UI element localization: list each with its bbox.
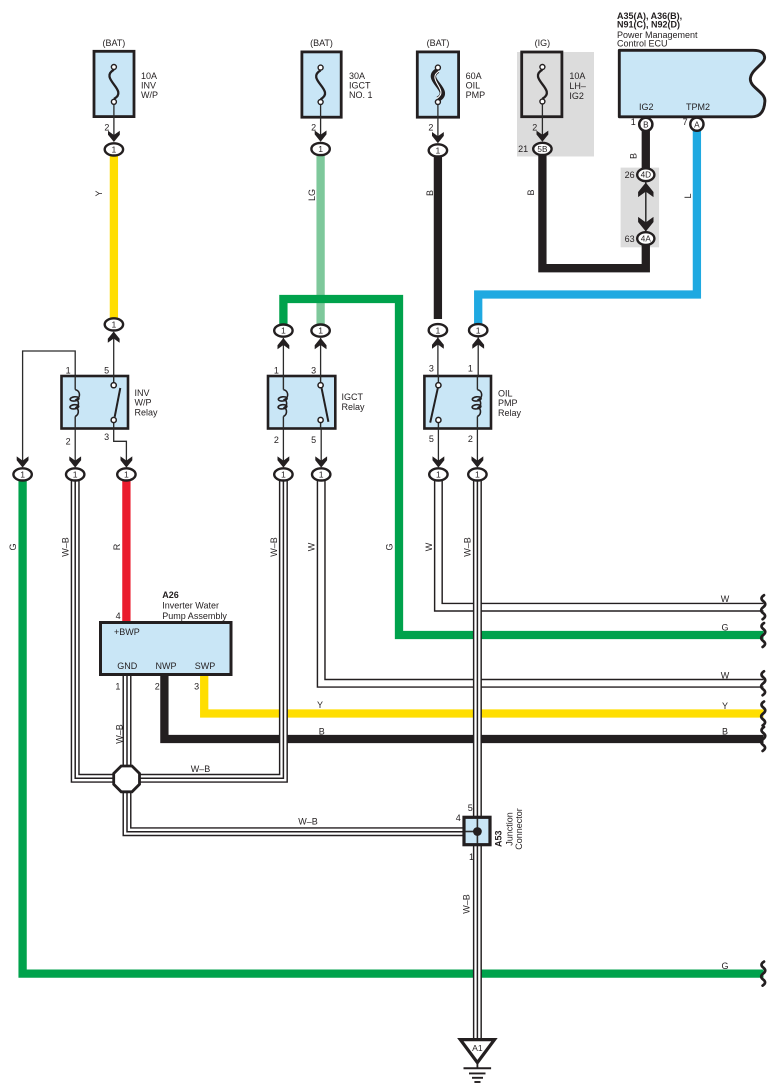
connector oval 1 left column <box>13 468 31 480</box>
connector oval 1 below IGCT pin5 <box>312 468 330 480</box>
fuse 10A LH-IG2 <box>522 52 562 117</box>
wire Y A26 SWP to right edge <box>204 673 763 714</box>
connector oval 1 below fuse1 <box>105 143 123 155</box>
svg-text:Y: Y <box>722 701 728 711</box>
ECU pin circle B (IG2) <box>639 118 652 131</box>
svg-text:W–B: W–B <box>191 764 211 774</box>
svg-text:3: 3 <box>194 682 199 692</box>
wire W OIL PMP relay pin 5 to right edge <box>438 478 763 607</box>
svg-text:1: 1 <box>274 366 279 376</box>
svg-text:W–B: W–B <box>269 537 279 557</box>
svg-text:G: G <box>721 622 728 632</box>
svg-text:1: 1 <box>436 145 441 155</box>
connector oval 1 above IGCT pin3 <box>311 325 329 337</box>
svg-text:10A: 10A <box>569 71 585 81</box>
svg-text:W: W <box>721 594 730 604</box>
svg-text:G: G <box>385 543 395 550</box>
svg-text:W: W <box>307 542 317 551</box>
arrow into OIL pin5 connector <box>433 456 445 467</box>
svg-text:W–B: W–B <box>298 817 318 827</box>
svg-text:7: 7 <box>683 117 688 127</box>
wire LG fuse IGCT to relay pin 3 <box>316 156 324 326</box>
svg-text:R: R <box>112 543 122 550</box>
svg-text:5: 5 <box>311 435 316 445</box>
gray panel around IG fuse <box>517 52 594 157</box>
connector oval 1 below IGCT pin2 <box>274 468 292 480</box>
arrow into INV pin2 connector <box>69 456 81 467</box>
wire G left net to bottom right edge <box>23 478 764 974</box>
arrow up into IGCT pin3 connector <box>315 338 327 349</box>
svg-text:INV: INV <box>135 388 150 398</box>
svg-text:IG2: IG2 <box>569 91 584 101</box>
svg-text:1: 1 <box>436 325 441 335</box>
svg-text:1: 1 <box>112 319 117 329</box>
svg-text:B: B <box>425 190 435 196</box>
relay IGCT coil <box>282 376 284 390</box>
arrow into INV pin3 connector <box>121 456 133 467</box>
svg-text:4: 4 <box>116 611 121 621</box>
svg-text:3: 3 <box>104 432 109 442</box>
arrow up into IGCT pin1 connector <box>278 338 290 349</box>
connector oval 1 below OIL pin2 <box>468 468 486 480</box>
connector oval 1 above OIL pin3 <box>429 324 447 336</box>
wire B 5B connector to 4A connector <box>542 154 645 268</box>
svg-text:GND: GND <box>117 661 138 671</box>
ECU box Power Management Control ECU <box>619 50 765 117</box>
arrow into 5B connector <box>537 131 549 142</box>
svg-text:A: A <box>694 120 700 129</box>
svg-text:63: 63 <box>625 234 635 244</box>
arrow into fuse3 connector <box>432 132 444 143</box>
svg-text:B: B <box>526 189 536 195</box>
svg-text:OIL: OIL <box>466 81 481 91</box>
wire B A26 NWP to right edge <box>164 673 763 739</box>
break squiggle G bottom <box>761 962 765 986</box>
svg-text:1: 1 <box>476 325 481 335</box>
connector oval 1 below INV pin3 <box>117 468 135 480</box>
wire L ECU pin TPM2 to OIL PMP relay pin 1 <box>478 130 697 325</box>
svg-text:B: B <box>319 726 325 736</box>
relay INV W/P box <box>62 376 129 429</box>
svg-text:1: 1 <box>281 469 286 479</box>
wire W-B INV relay pin 2 to octagon junction <box>75 478 113 778</box>
svg-text:5: 5 <box>468 803 473 813</box>
connector oval 4A <box>637 232 654 245</box>
svg-text:Relay: Relay <box>135 407 159 417</box>
svg-text:Inverter Water: Inverter Water <box>162 600 219 610</box>
svg-text:4: 4 <box>456 813 461 823</box>
svg-text:3: 3 <box>311 366 316 376</box>
wire B fuse OIL PMP to relay pin 3 <box>434 157 442 320</box>
svg-text:1: 1 <box>631 117 636 127</box>
svg-text:W–B: W–B <box>463 537 473 557</box>
svg-text:4A: 4A <box>641 235 652 244</box>
svg-text:1: 1 <box>124 469 129 479</box>
svg-text:N91(C), N92(D): N91(C), N92(D) <box>617 20 680 30</box>
svg-text:1: 1 <box>318 326 323 336</box>
wire Y fuse INV W/P to relay <box>110 156 118 319</box>
svg-text:2: 2 <box>532 122 537 132</box>
svg-text:G: G <box>721 961 728 971</box>
relay IGCT box <box>268 376 335 429</box>
connector oval 1 above OIL pin1 <box>469 324 487 336</box>
svg-text:1: 1 <box>281 326 286 336</box>
svg-text:30A: 30A <box>349 71 365 81</box>
svg-text:4D: 4D <box>641 171 652 180</box>
svg-text:IG2: IG2 <box>639 102 654 112</box>
relay IGCT switch <box>320 376 322 385</box>
svg-text:(BAT): (BAT) <box>427 38 450 48</box>
wire W-B octagon junction to A53 pin 4 <box>127 788 466 832</box>
A26 Inverter Water Pump Assembly box <box>101 623 232 675</box>
connector oval 1 above INV pin5 <box>105 318 123 330</box>
svg-text:1: 1 <box>319 469 324 479</box>
svg-text:2: 2 <box>104 123 109 133</box>
svg-text:(BAT): (BAT) <box>102 38 125 48</box>
arrow into fuse1 connector <box>108 131 120 142</box>
svg-text:(BAT): (BAT) <box>310 38 333 48</box>
svg-text:1: 1 <box>469 852 474 862</box>
svg-text:IGCT: IGCT <box>342 392 364 402</box>
break squiggle G IGCT net <box>761 623 765 647</box>
svg-text:Junction: Junction <box>504 812 514 846</box>
wire thin INV relay pin 1 to left connector <box>23 351 76 466</box>
svg-text:1: 1 <box>112 144 117 154</box>
wire R INV relay pin 3 to A26 +BWP <box>122 478 130 624</box>
svg-text:L: L <box>683 193 693 198</box>
svg-text:LH–: LH– <box>569 81 586 91</box>
svg-text:B: B <box>629 153 639 159</box>
break squiggle B NWP <box>761 727 765 751</box>
connector oval 4D <box>637 168 654 181</box>
svg-text:1: 1 <box>436 469 441 479</box>
svg-text:Control ECU: Control ECU <box>617 38 668 48</box>
svg-text:21: 21 <box>518 144 528 154</box>
arrow down 4A <box>638 217 653 232</box>
svg-text:5B: 5B <box>537 145 548 154</box>
wire G IGCT relay pin 1 net to right edge <box>283 299 763 635</box>
pin stub OIL relay pin 5 <box>437 429 439 467</box>
svg-text:10A: 10A <box>141 71 157 81</box>
svg-text:W/P: W/P <box>141 90 158 100</box>
svg-text:2: 2 <box>274 435 279 445</box>
svg-text:2: 2 <box>155 682 160 692</box>
relay INV W/P switch <box>113 376 115 385</box>
wire W-B OIL PMP relay pin 2 through A53 to ground A1 <box>473 478 482 1039</box>
link line 4D to 4A <box>645 178 647 236</box>
svg-text:PMP: PMP <box>466 90 486 100</box>
svg-text:2: 2 <box>428 122 433 132</box>
svg-text:W: W <box>424 542 434 551</box>
arrow into left connector <box>17 456 29 467</box>
relay OIL PMP switch <box>437 376 439 385</box>
svg-text:5: 5 <box>429 434 434 444</box>
svg-text:Relay: Relay <box>498 408 522 418</box>
connector oval 1 below fuse2 <box>311 143 329 155</box>
svg-text:A53: A53 <box>494 830 504 847</box>
svg-text:1: 1 <box>73 469 78 479</box>
pin stub IGCT relay pin 3 <box>320 338 322 376</box>
svg-text:W–B: W–B <box>462 894 472 914</box>
svg-text:1: 1 <box>318 144 323 154</box>
svg-text:1: 1 <box>115 682 120 692</box>
relay OIL PMP coil <box>476 376 478 390</box>
svg-text:2: 2 <box>468 434 473 444</box>
pin stub OIL relay pin 1 <box>477 338 479 377</box>
svg-text:B: B <box>643 121 649 130</box>
svg-text:INV: INV <box>141 81 156 91</box>
A53 junction connector box <box>464 817 490 844</box>
connector oval 1 below fuse3 <box>429 144 447 156</box>
svg-text:2: 2 <box>66 437 71 447</box>
pin stub IGCT relay pin 2 <box>282 429 284 467</box>
svg-text:OIL: OIL <box>498 388 513 398</box>
wire B ECU pin IG2 to 4D connector <box>642 130 650 170</box>
break squiggle Y SWP <box>761 702 765 726</box>
connector oval 1 above IGCT pin1 <box>274 325 292 337</box>
ground A1 <box>460 1040 494 1063</box>
wire W-B A26 GND to octagon junction <box>123 672 132 770</box>
svg-text:+BWP: +BWP <box>114 627 140 637</box>
connector oval 1 below OIL pin5 <box>429 468 447 480</box>
svg-text:1: 1 <box>66 366 71 376</box>
svg-text:Y: Y <box>94 190 104 196</box>
arrow into fuse2 connector <box>315 131 327 142</box>
svg-text:SWP: SWP <box>195 661 216 671</box>
svg-text:Relay: Relay <box>342 402 366 412</box>
svg-text:5: 5 <box>104 366 109 376</box>
arrow up into INV top connector <box>108 332 120 343</box>
svg-text:60A: 60A <box>466 71 482 81</box>
pin stub IGCT relay pin 1 <box>282 338 284 376</box>
svg-text:(IG): (IG) <box>535 38 551 48</box>
svg-text:Y: Y <box>317 700 323 710</box>
arrow up 4D <box>638 183 653 198</box>
wire W-B IGCT relay pin 2 to octagon junction <box>139 478 283 778</box>
svg-text:1: 1 <box>475 469 480 479</box>
arrow into OIL pin2 connector <box>472 456 484 467</box>
break squiggle W IGCT pin5 <box>761 671 765 695</box>
wire W IGCT relay pin 5 to right edge <box>321 478 763 683</box>
svg-text:3: 3 <box>429 364 434 374</box>
connector oval 5B below IG fuse <box>533 143 551 155</box>
svg-text:2: 2 <box>311 123 316 133</box>
svg-text:B: B <box>722 726 728 736</box>
svg-text:W/P: W/P <box>135 398 152 408</box>
connector oval 1 below INV pin2 <box>66 468 84 480</box>
arrow into IGCT pin5 connector <box>315 456 327 467</box>
fuse 30A IGCT NO.1 <box>302 52 341 117</box>
arrow into IGCT pin2 connector <box>278 456 290 467</box>
svg-text:Pump Assembly: Pump Assembly <box>162 611 227 621</box>
fuse 10A INV W/P <box>94 51 134 116</box>
arrow up into OIL pin3 connector <box>432 338 444 349</box>
svg-text:W–B: W–B <box>114 724 124 744</box>
pin stub IGCT relay pin 5 <box>320 429 322 467</box>
svg-text:NO. 1: NO. 1 <box>349 90 373 100</box>
svg-text:NWP: NWP <box>156 661 177 671</box>
pin stub OIL relay pin 3 <box>437 338 439 377</box>
arrow up into OIL pin1 connector <box>472 338 484 349</box>
svg-text:W: W <box>721 670 730 680</box>
svg-text:PMP: PMP <box>498 398 518 408</box>
svg-text:IGCT: IGCT <box>349 81 371 91</box>
pin stub INV relay pin 3 jog <box>114 429 127 467</box>
svg-text:1: 1 <box>468 364 473 374</box>
fusible link 60A OIL PMP <box>417 52 458 117</box>
svg-text:Connector: Connector <box>514 808 524 850</box>
svg-text:A26: A26 <box>162 590 179 600</box>
svg-text:1: 1 <box>20 469 25 479</box>
svg-text:W–B: W–B <box>61 537 71 557</box>
break squiggle W OIL pin5 <box>761 595 765 619</box>
pin stub OIL relay pin 2 <box>476 429 478 467</box>
svg-text:A1: A1 <box>472 1043 483 1053</box>
pin stub INV relay pin 5 <box>113 332 115 376</box>
svg-text:LG: LG <box>307 189 317 201</box>
pin stub INV relay pin 2 <box>74 429 76 467</box>
octagon splice junction <box>114 766 140 792</box>
relay INV W/P coil <box>74 376 76 390</box>
svg-text:26: 26 <box>625 170 635 180</box>
svg-text:G: G <box>8 543 18 550</box>
relay OIL PMP box <box>424 376 491 429</box>
ECU pin circle A (TPM2) <box>690 118 703 131</box>
svg-text:TPM2: TPM2 <box>686 102 710 112</box>
gray panel around 4D/4A connector <box>621 168 660 248</box>
